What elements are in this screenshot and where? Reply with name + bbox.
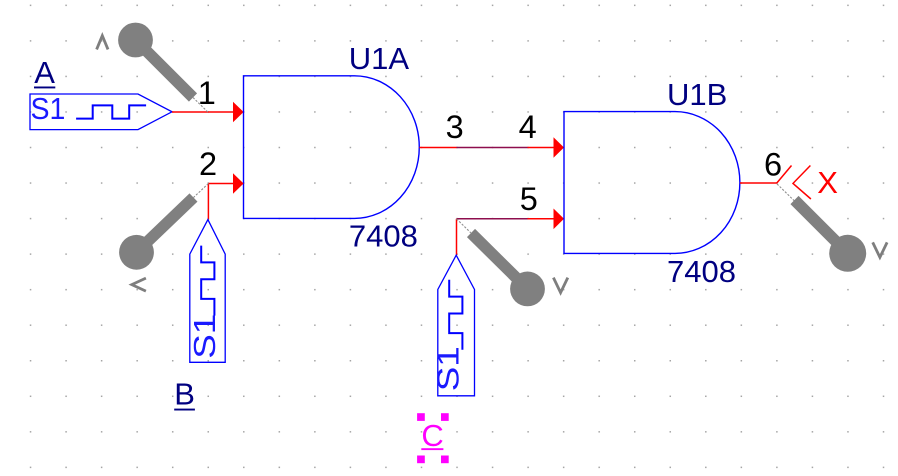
wire B to gate pin2 horizontal (208, 183, 233, 185)
output connector chevron 1 (777, 166, 792, 184)
svg-text:3: 3 (446, 109, 464, 145)
source S1 (B input) (188, 220, 225, 363)
svg-text:C: C (421, 418, 443, 453)
wire C vertical (456, 219, 458, 255)
probe 4 tie line (777, 184, 796, 202)
pin 5 arrow (554, 209, 565, 230)
pin 2 arrow (233, 173, 244, 194)
source S1 (A input) (30, 92, 172, 130)
output connector chevron 2 (793, 166, 811, 200)
node A label (34, 55, 55, 90)
svg-text:2: 2 (199, 146, 217, 182)
op gate U1A outline (244, 76, 420, 219)
svg-text:A: A (34, 55, 55, 90)
pin 4 arrow (554, 137, 565, 158)
svg-text:X: X (817, 165, 838, 200)
wire pin6 stub (740, 182, 777, 184)
probe 4 head (829, 235, 866, 272)
svg-text:7408: 7408 (349, 218, 418, 253)
probe 2 handle (146, 198, 194, 244)
svg-text:U1B: U1B (667, 77, 727, 112)
svg-text:1: 1 (198, 75, 216, 111)
probe 1 tie line (193, 98, 208, 113)
probe 4 handle (795, 200, 839, 244)
svg-text:S1: S1 (431, 346, 466, 391)
node C label (selected) (417, 413, 449, 463)
svg-text:S1: S1 (188, 314, 223, 359)
svg-text:4: 4 (519, 109, 537, 145)
svg-text:B: B (174, 377, 195, 412)
pin 1 arrow (233, 102, 244, 123)
svg-text:5: 5 (520, 181, 538, 217)
probe 1 label (rotated V) (97, 36, 108, 50)
probe 1 handle (146, 50, 194, 98)
wire net A to gate pin1 (172, 111, 234, 113)
wire pin4 stub (528, 147, 554, 149)
node B label (174, 377, 195, 412)
svg-text:7408: 7408 (667, 254, 736, 289)
net wire 3-4 (457, 147, 528, 149)
probe 4 label V (873, 242, 887, 257)
source S1 (C input) (431, 255, 474, 396)
wire pin3 stub (419, 147, 456, 149)
svg-text:S1: S1 (31, 92, 66, 126)
probe 3 head (510, 272, 545, 307)
svg-text:6: 6 (764, 147, 782, 183)
probe 3 handle (471, 233, 518, 280)
probe 1 head (118, 23, 153, 58)
wire B to gate pin2 vertical (207, 184, 209, 220)
wire pin5 stub (528, 218, 554, 220)
svg-text:U1A: U1A (349, 41, 410, 76)
probe 3 label V (553, 278, 567, 293)
net wire 5 (457, 218, 528, 220)
probe 2 head (119, 235, 154, 270)
op gate U1B outline (564, 112, 740, 254)
probe 3 tie line (457, 219, 472, 233)
probe 2 tie line (194, 184, 209, 198)
probe 2 label (rotated V) (132, 278, 146, 291)
